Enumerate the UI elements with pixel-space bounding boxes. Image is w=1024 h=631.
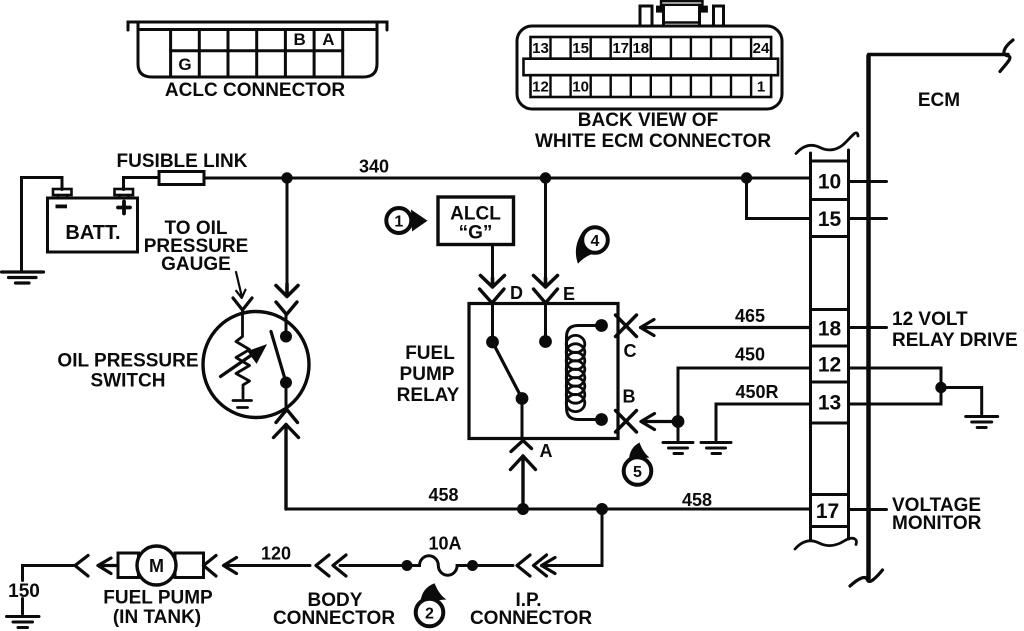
svg-text:C: C [624, 341, 637, 361]
relay switch contact E [544, 304, 547, 342]
svg-text:A: A [540, 441, 553, 461]
I.P. connector chevrons [517, 555, 547, 576]
svg-text:RELAY DRIVE: RELAY DRIVE [892, 330, 1018, 351]
svg-text:FUEL: FUEL [405, 343, 455, 364]
wire pin 13 to ground [849, 388, 942, 405]
node junction 340/oil-switch [281, 172, 292, 183]
ECM pin column [811, 150, 849, 539]
svg-text:450R: 450R [735, 382, 778, 402]
connector X at B [616, 411, 637, 433]
node pin12/13 junction [935, 382, 946, 393]
svg-text:458: 458 [428, 485, 458, 505]
body connector chevrons [316, 555, 346, 576]
switch contact bottom [280, 377, 292, 389]
svg-text:450: 450 [735, 345, 765, 365]
svg-text:B: B [294, 30, 306, 49]
svg-text:MONITOR: MONITOR [892, 513, 982, 534]
chevron left of pump [75, 556, 88, 577]
arrow into oil pressure switch [276, 284, 298, 297]
svg-text:18: 18 [632, 40, 649, 57]
svg-text:12: 12 [532, 79, 549, 96]
wire pin 12 to ground [849, 368, 942, 388]
svg-text:ECM: ECM [918, 90, 960, 111]
svg-text:18: 18 [818, 318, 842, 341]
wire 450 from pin 12 [678, 368, 811, 422]
marker 2 [416, 583, 447, 626]
switch contact top [285, 315, 288, 337]
svg-text:WHITE ECM CONNECTOR: WHITE ECM CONNECTOR [535, 131, 771, 152]
relay coil frame [567, 326, 602, 420]
node 458/pump-feed junction [596, 503, 608, 515]
wire with arrow to B [641, 414, 678, 430]
chevron at pump right [204, 556, 217, 577]
svg-text:GAUGE: GAUGE [161, 254, 231, 275]
gauge pointer arrow [236, 272, 246, 298]
torn edge top of column [796, 133, 858, 154]
svg-text:ALCL: ALCL [450, 204, 501, 225]
svg-text:12 VOLT: 12 VOLT [892, 309, 968, 330]
arrow up below A [511, 456, 536, 509]
break symbol top right [1000, 40, 1013, 72]
wire ALCL to relay D [491, 245, 494, 279]
svg-text:SWITCH: SWITCH [91, 371, 166, 392]
relay switch contact D [491, 304, 494, 343]
battery plus sign [118, 202, 130, 214]
svg-text:2: 2 [425, 606, 434, 623]
fuel pump M1 [118, 546, 204, 585]
svg-text:15: 15 [818, 208, 842, 231]
svg-text:17: 17 [612, 40, 629, 57]
svg-text:A: A [322, 30, 334, 49]
relay switch blade [493, 342, 523, 399]
svg-text:G: G [178, 55, 191, 74]
wire 458 [286, 508, 811, 511]
ECM boundary line [869, 55, 1009, 579]
arrow into relay E [534, 276, 558, 288]
svg-text:5: 5 [633, 464, 642, 481]
svg-text:10: 10 [572, 79, 589, 96]
svg-text:PUMP: PUMP [400, 364, 455, 385]
ground (inside switch) [233, 401, 252, 408]
svg-text:24: 24 [753, 40, 770, 57]
wire pin15 branch [747, 178, 811, 219]
relay coil loops [566, 335, 585, 411]
fuse 10A [402, 560, 413, 571]
pin stubs to ECM [849, 182, 887, 510]
wire battery minus to ground [22, 178, 63, 271]
connector X at C [616, 315, 637, 337]
battery minus sign [56, 205, 68, 209]
node junction 340/E [540, 172, 551, 183]
svg-text:10: 10 [818, 171, 841, 194]
svg-text:13: 13 [818, 392, 841, 415]
svg-text:458: 458 [682, 490, 712, 510]
connector chevron at D [480, 289, 505, 303]
ALCL G box [438, 197, 514, 245]
wire 465 with arrow to C [641, 320, 811, 336]
node B/450 junction [672, 415, 685, 428]
node 458/A junction [517, 503, 529, 515]
svg-text:120: 120 [261, 544, 291, 564]
arrow into I.P. connector [542, 558, 556, 574]
fuel pump relay box U1 [469, 304, 618, 439]
ECM connector pin numbers [532, 40, 770, 96]
arrow into relay D [481, 276, 505, 288]
svg-text:BATT.: BATT. [65, 222, 120, 244]
svg-text:FUSIBLE LINK: FUSIBLE LINK [117, 151, 248, 172]
svg-text:(IN TANK): (IN TANK) [113, 607, 201, 628]
svg-text:OIL PRESSURE: OIL PRESSURE [57, 351, 198, 372]
variable resistor arrow [221, 354, 254, 377]
marker 5 [624, 443, 652, 485]
connector chevron at switch top right [276, 302, 297, 315]
connector chevron at A [511, 441, 532, 452]
wire battery plus to fusible link [124, 178, 160, 190]
node junction 340/pin15 [741, 172, 752, 183]
ground (battery) [2, 272, 44, 283]
ground (B junction) [677, 422, 680, 441]
svg-text:E: E [563, 284, 575, 304]
coil terminal node B [595, 413, 608, 426]
connector chevron at switch top left [233, 298, 252, 310]
wire 120 [225, 564, 310, 567]
svg-text:1: 1 [757, 79, 765, 96]
svg-text:150: 150 [8, 581, 40, 602]
break symbol bottom of ECM line [850, 570, 883, 586]
oil pressure switch circle [203, 312, 309, 418]
switch blade [271, 332, 286, 383]
wire 450R from pin 13 [716, 404, 811, 440]
svg-text:M: M [149, 556, 164, 576]
wire body connector to fuse [340, 564, 407, 567]
svg-text:BACK VIEW OF: BACK VIEW OF [578, 110, 718, 131]
svg-text:ACLC CONNECTOR: ACLC CONNECTOR [165, 80, 345, 101]
relay A lead [521, 399, 524, 439]
ACLC connector [128, 22, 387, 77]
svg-text:“G”: “G” [459, 223, 493, 244]
svg-text:B: B [623, 387, 636, 407]
svg-text:D: D [510, 283, 523, 303]
svg-text:465: 465 [735, 306, 765, 326]
ECM connector (back view) [517, 1, 782, 109]
svg-text:CONNECTOR: CONNECTOR [273, 608, 395, 629]
wire 340 branch down to oil pressure switch [286, 178, 289, 284]
wire 150 [23, 566, 76, 615]
battery BATT [48, 189, 138, 252]
torn edge bottom of column [795, 538, 856, 549]
arrow up below switch [274, 425, 299, 510]
ground (ECM pins 12/13) [966, 417, 998, 428]
svg-text:17: 17 [816, 500, 839, 523]
svg-text:CONNECTOR: CONNECTOR [470, 608, 592, 629]
svg-text:12: 12 [818, 354, 841, 377]
coil terminal node C [595, 319, 608, 332]
svg-text:4: 4 [591, 233, 600, 250]
connector chevron at switch bottom [276, 410, 298, 423]
wire fuse to I.P. [473, 564, 514, 567]
connector chevron at E [534, 289, 558, 303]
svg-text:340: 340 [359, 157, 389, 177]
svg-text:13: 13 [532, 40, 549, 57]
svg-text:10A: 10A [428, 534, 461, 554]
marker 4 [576, 227, 608, 264]
wire 340 branch down to relay E [544, 178, 547, 278]
arrow into fuel pump right [224, 558, 237, 574]
svg-text:1: 1 [394, 214, 403, 231]
ground (450R) [701, 443, 731, 454]
arrow into pump left side [98, 558, 118, 574]
variable resistor (sender) [236, 310, 250, 398]
svg-text:RELAY: RELAY [397, 385, 460, 406]
wire junction to ground [941, 388, 982, 415]
marker 1 [386, 208, 427, 233]
ground (fuel pump 150) [7, 617, 40, 628]
svg-text:15: 15 [572, 40, 589, 57]
svg-text:FUEL PUMP: FUEL PUMP [103, 588, 213, 609]
wire 340 [204, 177, 811, 180]
wire down to I.P. connector [546, 509, 602, 566]
fusible link [159, 172, 204, 185]
